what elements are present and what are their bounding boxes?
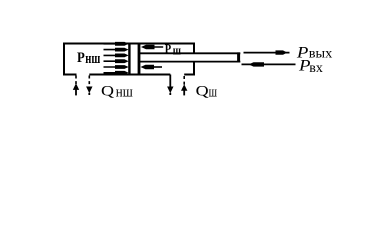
cylinder body: bottom wall left segment [63, 74, 77, 76]
arrow P_out (right-pointing) [244, 50, 290, 54]
piston rod top line [139, 52, 240, 54]
arrow row 2 [104, 48, 129, 52]
svg-text:ш: ш [173, 44, 182, 58]
svg-text:Р: Р [77, 50, 85, 66]
svg-text:нш: нш [85, 51, 100, 67]
flow arrow Q_nsh inflow (up arrow, dashed stem) [73, 76, 79, 96]
pressure arrows left chamber (6 right-pointing) [104, 42, 129, 75]
rod chamber upper arrow (left-pointing) [141, 45, 163, 49]
svg-text:Q: Q [196, 84, 209, 100]
label Q_nsh [101, 84, 133, 101]
svg-text:вых: вых [309, 46, 333, 61]
cylinder body: right wall lower segment [193, 62, 195, 76]
cylinder body: right wall upper segment [193, 43, 195, 54]
svg-text:ш: ш [209, 84, 217, 100]
svg-text:нш: нш [116, 84, 133, 100]
cylinder body: left wall [63, 43, 65, 76]
piston rod bottom line [139, 61, 240, 63]
rod end cap [237, 52, 240, 62]
svg-text:Q: Q [101, 84, 114, 100]
label P_sh [165, 42, 182, 57]
cylinder body: bottom wall right segment [184, 74, 195, 76]
cylinder body: top wall [63, 43, 195, 45]
arrow row 5 [104, 65, 129, 69]
flow arrow Q_nsh outflow (down arrow, dashed stem) [86, 76, 92, 96]
label P_out [296, 44, 333, 61]
label P_in [298, 58, 323, 76]
arrow P_in (left-pointing) [242, 62, 296, 66]
piston left face [128, 43, 130, 76]
arrow row 3 [104, 54, 129, 58]
flow arrow Q_sh inflow (up arrow, dashed stem) [181, 76, 187, 95]
svg-text:вх: вх [309, 61, 323, 76]
label Q_sh [196, 84, 217, 101]
piston right face [138, 43, 141, 76]
cylinder body: bottom wall middle segment [89, 74, 170, 76]
arrow row 1 [104, 42, 129, 46]
flow arrow Q_sh outflow (down arrow, solid stem) [167, 75, 173, 96]
arrow row 4 [104, 59, 129, 63]
rod chamber lower arrow (left-pointing) [141, 65, 163, 69]
arrow row 6 [104, 71, 129, 75]
label P_nsh [77, 50, 100, 67]
